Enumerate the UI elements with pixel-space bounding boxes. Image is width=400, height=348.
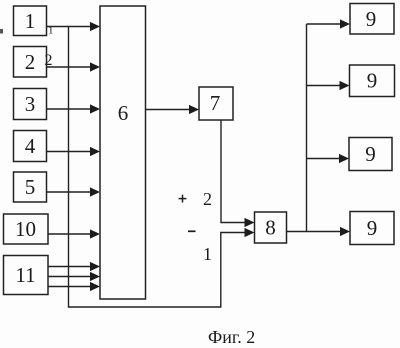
arrowhead into block6 from block3 — [90, 104, 100, 113]
arrowhead into block6 from block5 — [90, 187, 100, 196]
svg-text:9: 9 — [367, 69, 378, 93]
svg-text:9: 9 — [366, 7, 377, 31]
arrowhead into block6 from block11 middle — [90, 272, 100, 281]
svg-text:11: 11 — [15, 263, 35, 287]
svg-text:6: 6 — [118, 101, 129, 125]
arrowhead into block6 from block11 lower — [90, 282, 100, 291]
block 10 — [4, 214, 49, 244]
svg-text:2: 2 — [45, 52, 53, 69]
arrowhead into block7 — [189, 105, 199, 114]
block 6 — [100, 6, 146, 299]
block 4 — [14, 131, 47, 162]
svg-text:2: 2 — [25, 50, 36, 74]
wire block2 to block6 — [47, 66, 93, 68]
block 5 — [14, 172, 47, 202]
wire block1 to block6 — [47, 26, 93, 28]
block 1 — [14, 6, 47, 36]
block 9 (bottom) — [350, 212, 394, 245]
svg-text:1: 1 — [48, 25, 54, 37]
block 9 (top) — [350, 4, 394, 35]
wire block11 to block6 (upper) — [48, 266, 92, 268]
wire bus to block9 top — [307, 23, 343, 25]
svg-text:9: 9 — [365, 142, 376, 166]
block 9 (second) — [350, 65, 395, 97]
block 8 — [255, 212, 287, 243]
block 7 — [199, 87, 233, 120]
minus sign at block8 input — [188, 230, 196, 232]
wire block3 to block6 — [47, 108, 93, 110]
scan artifact at left edge — [0, 29, 3, 34]
block 11 — [4, 256, 49, 295]
wire block11 to block6 (middle) — [48, 276, 92, 278]
wire block8 to output bus — [287, 231, 307, 233]
wire block7 to block8 plus input — [221, 120, 247, 223]
svg-text:2: 2 — [203, 189, 212, 209]
arrowhead into block8 minus input — [245, 228, 255, 237]
wire block11 to block6 (lower) — [48, 286, 92, 288]
svg-text:7: 7 — [210, 91, 221, 115]
block 9 (third) — [349, 138, 392, 171]
svg-text:4: 4 — [25, 134, 36, 158]
svg-text:3: 3 — [25, 92, 36, 116]
wire block10 to block6 — [48, 233, 92, 235]
arrowhead into block9 second — [340, 81, 350, 90]
wire block5 to block6 — [47, 191, 93, 193]
wire block4 to block6 — [47, 151, 93, 153]
arrowhead into block6 from block1 — [90, 22, 100, 31]
wire bus to block9 second — [307, 85, 342, 87]
arrowhead into block6 from block2 — [90, 62, 100, 71]
block 3 — [14, 89, 47, 120]
arrowhead into block9 third — [339, 154, 349, 163]
svg-text:Фиг. 2: Фиг. 2 — [208, 327, 255, 347]
plus sign at block8 input — [179, 195, 187, 203]
svg-text:5: 5 — [25, 175, 36, 199]
arrowhead into block6 from block10 — [90, 229, 100, 238]
wire bus to block9 third — [307, 158, 342, 160]
block 2 — [14, 47, 47, 78]
svg-text:1: 1 — [203, 244, 212, 264]
arrowhead into block8 plus input — [245, 218, 255, 227]
svg-text:9: 9 — [367, 216, 378, 240]
arrowhead into block6 from block11 upper — [90, 262, 100, 271]
arrowhead into block6 from block4 — [90, 147, 100, 156]
arrowhead into block9 bottom — [340, 227, 350, 236]
svg-text:1: 1 — [25, 9, 36, 33]
wire tap node: vertical feedback line from block1 wire — [69, 27, 248, 308]
wire block6 to block7 — [146, 109, 192, 111]
svg-text:10: 10 — [15, 217, 36, 241]
svg-text:8: 8 — [265, 216, 276, 240]
arrowhead into block9 top — [340, 19, 350, 28]
bus vertical line — [306, 24, 308, 232]
wire bus to block9 bottom — [307, 231, 343, 233]
